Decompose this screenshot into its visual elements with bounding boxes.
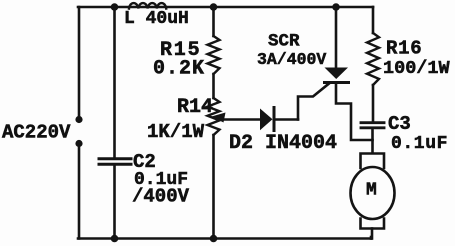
svg-text:M: M <box>366 181 377 201</box>
wire left vertical (AC branch upper) <box>78 7 81 117</box>
inductor L 40uH <box>124 3 189 29</box>
wire C3 to motor <box>371 129 374 153</box>
svg-text:D2 IN4004: D2 IN4004 <box>229 132 337 155</box>
svg-text:0.2K: 0.2K <box>153 58 205 81</box>
capacitor C3 <box>361 113 448 154</box>
wire C2 branch upper <box>113 7 116 158</box>
wire SCR cathode jog <box>336 83 373 141</box>
wire wiper to D2 <box>222 118 260 121</box>
wire R15 branch top <box>212 7 215 36</box>
resistor R15 <box>153 36 220 81</box>
node junction bottom C2 <box>111 235 119 243</box>
svg-text:R16: R16 <box>386 38 422 60</box>
node AC terminal upper <box>75 116 82 123</box>
svg-text:L 40uH: L 40uH <box>124 9 189 29</box>
wire top rail <box>78 6 373 9</box>
node junction top R15 <box>210 3 218 11</box>
resistor R16 <box>367 33 451 85</box>
node junction bottom R14 <box>210 235 218 243</box>
SCR U1 <box>257 7 349 83</box>
wire bottom rail <box>78 237 371 240</box>
svg-text:C3: C3 <box>388 113 411 135</box>
svg-text:0.1uF: 0.1uF <box>391 134 448 154</box>
svg-text:1K/1W: 1K/1W <box>147 121 205 143</box>
node junction top SCR <box>332 3 340 11</box>
resistor R14 (potentiometer) <box>147 96 220 143</box>
svg-text:AC220V: AC220V <box>2 122 71 144</box>
wire left vertical (AC branch lower) <box>78 146 81 239</box>
svg-text:3A/400V: 3A/400V <box>257 50 326 69</box>
node junction top C2 <box>111 3 119 11</box>
wire gate riser <box>298 84 329 120</box>
wire between R15 and R14 <box>212 74 215 98</box>
svg-text:/400V: /400V <box>132 186 190 208</box>
wiper arrow of R14 <box>212 113 226 123</box>
svg-text:SCR: SCR <box>268 32 300 52</box>
motor M1 <box>351 154 395 239</box>
capacitor C2 <box>99 151 190 208</box>
wire D2 to gate riser <box>274 118 298 121</box>
wire R14 branch bottom <box>212 135 215 239</box>
svg-text:100/1W: 100/1W <box>383 58 451 79</box>
wire R16 to C3 <box>372 85 375 122</box>
wire R16 branch top <box>372 7 375 33</box>
svg-text:R14: R14 <box>177 96 213 119</box>
node AC terminal lower <box>75 140 82 147</box>
diode D2 <box>229 108 337 156</box>
wire motor to bottom rail <box>370 237 373 239</box>
wire C2 branch lower <box>113 166 116 239</box>
